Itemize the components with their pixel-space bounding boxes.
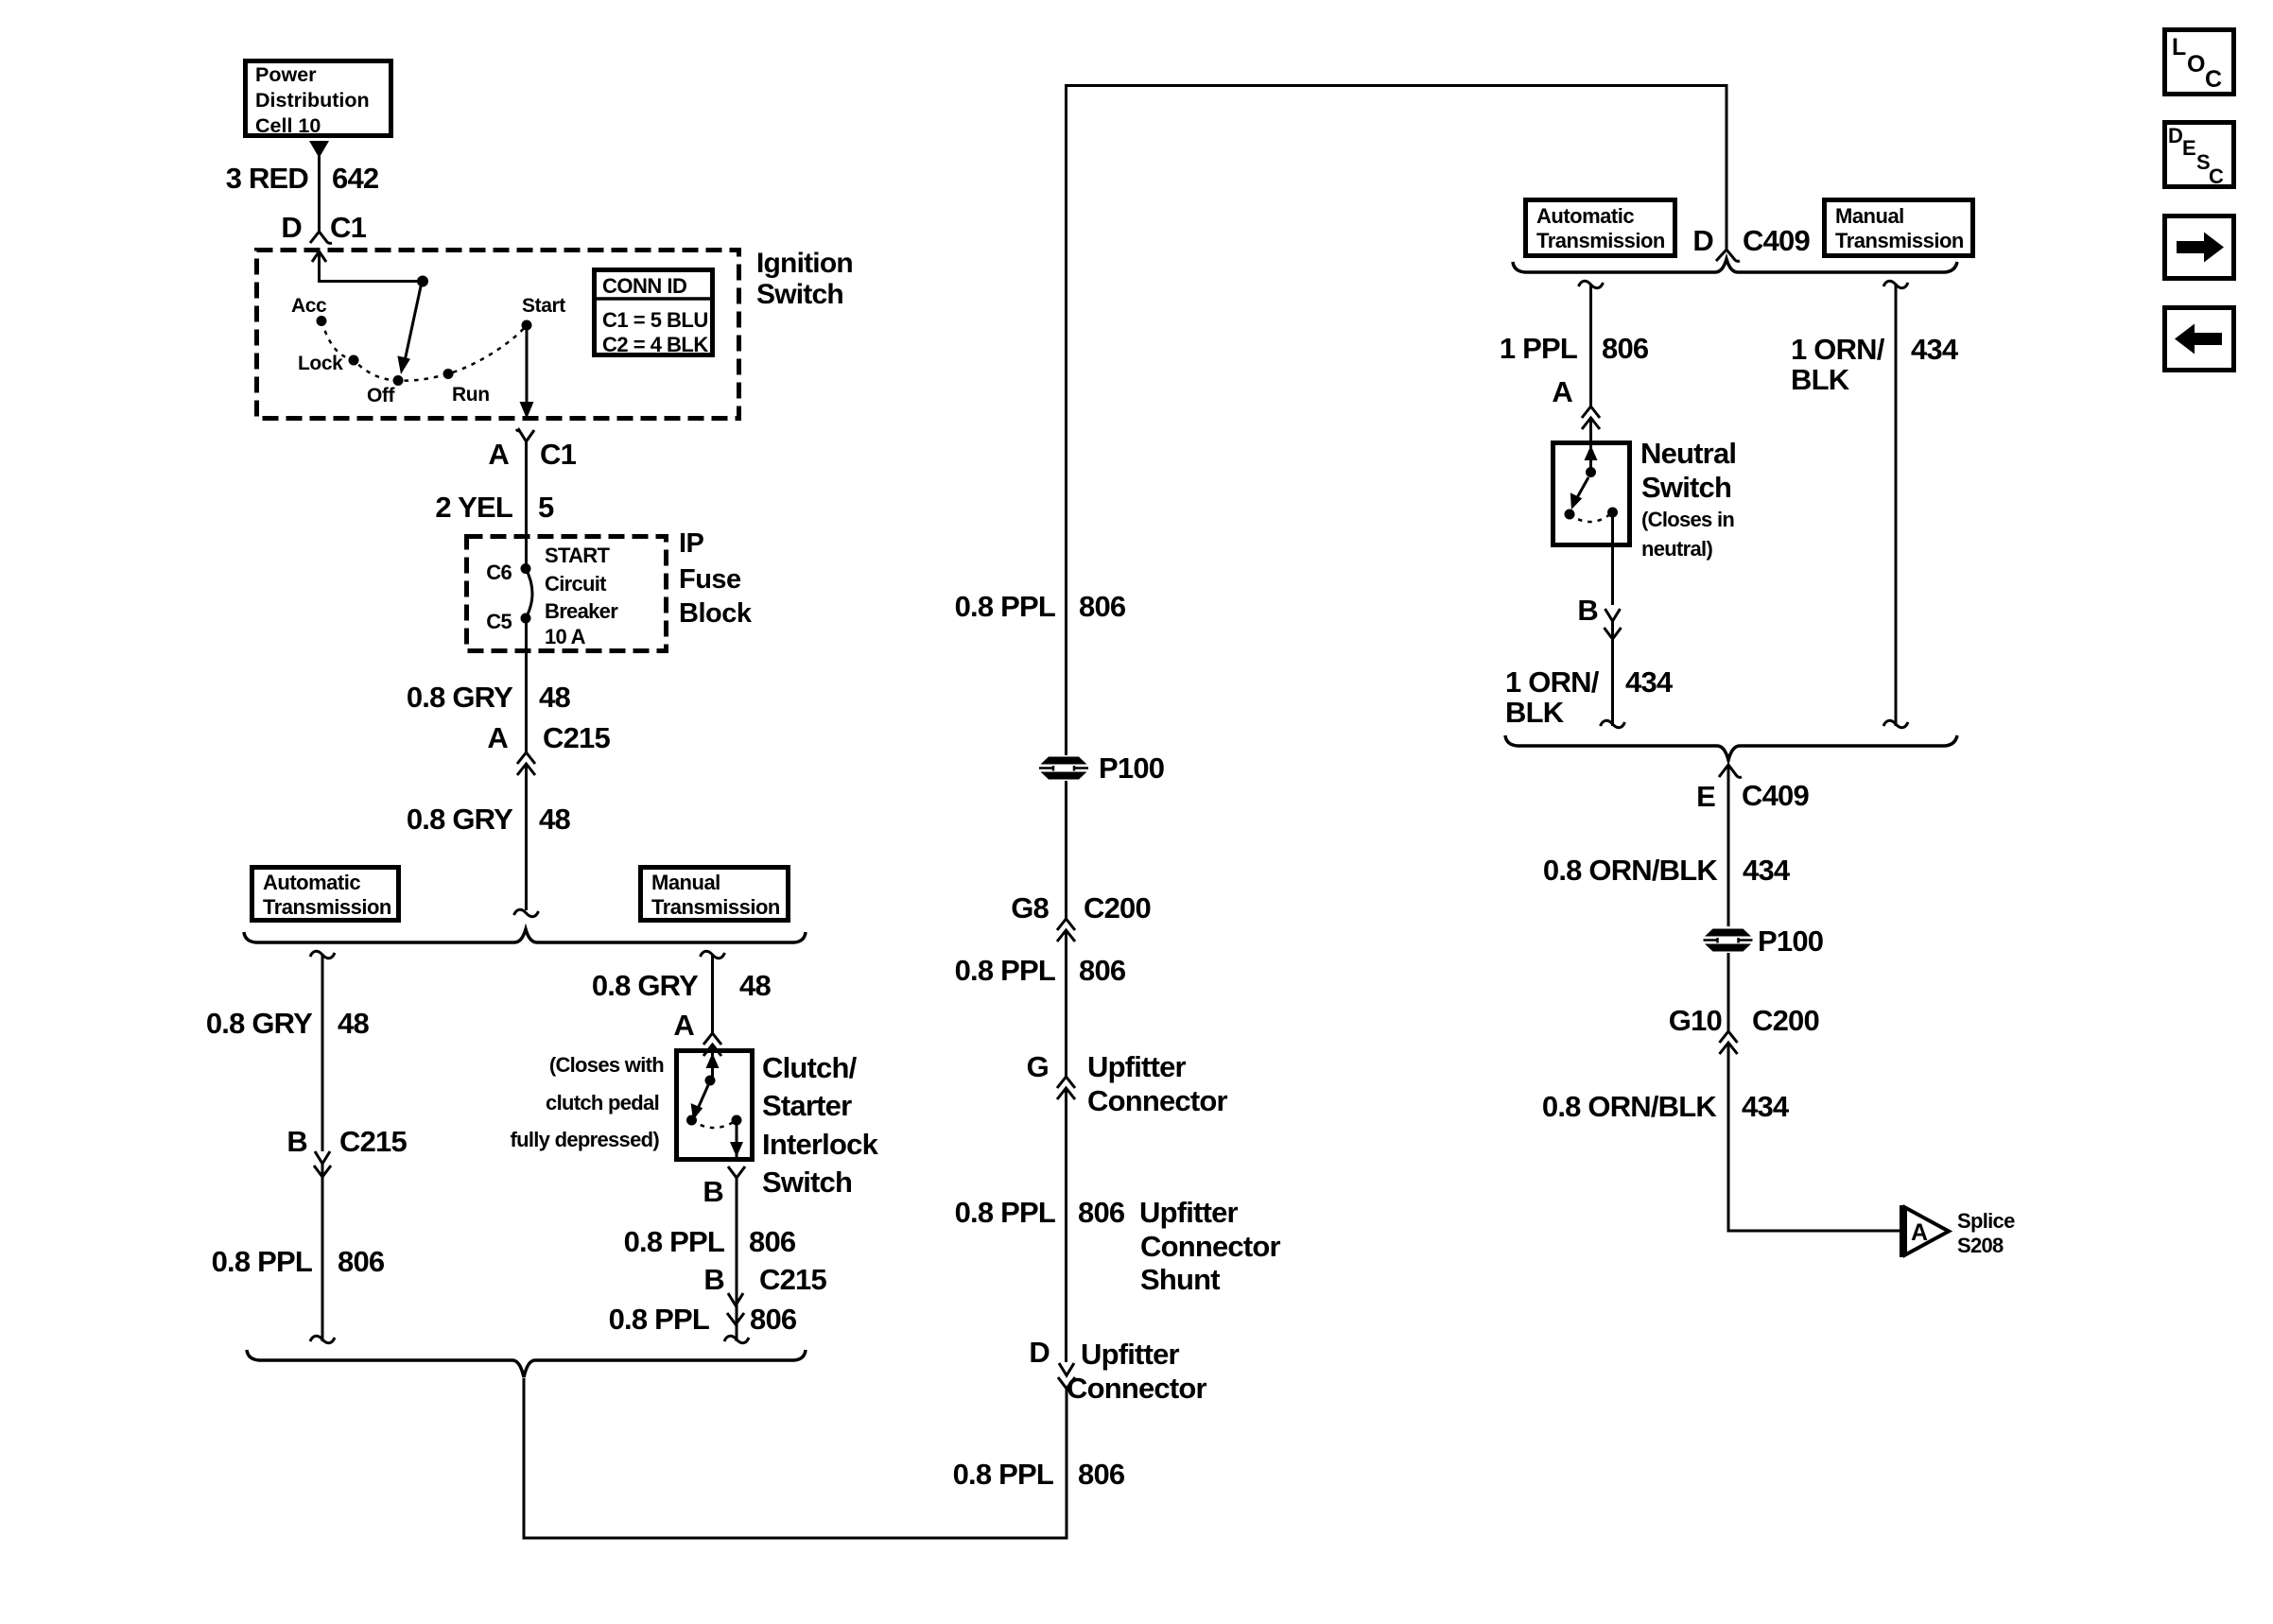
svg-text:Circuit: Circuit bbox=[545, 572, 607, 596]
wire 434 (1 ORN/BLK) manual bypass bbox=[1895, 284, 1898, 726]
svg-text:D: D bbox=[1692, 224, 1713, 257]
circuit breaker terminal C5 bbox=[521, 613, 531, 624]
svg-text:C: C bbox=[2205, 66, 2222, 93]
node Acc bbox=[317, 316, 327, 326]
svg-text:A: A bbox=[488, 438, 509, 471]
upfitter connector pin D (arrow down and fork) bbox=[1058, 1363, 1075, 1389]
svg-text:0.8 ORN/BLK: 0.8 ORN/BLK bbox=[1542, 1090, 1718, 1123]
connector C215 pin B (arrow down and fork) bbox=[314, 1151, 331, 1177]
svg-text:CONN ID: CONN ID bbox=[602, 274, 686, 298]
svg-text:Upfitter: Upfitter bbox=[1139, 1196, 1239, 1229]
node Off bbox=[393, 375, 404, 386]
neutral switch box bbox=[1553, 443, 1630, 545]
manual branch wire start curl bbox=[701, 951, 725, 958]
svg-text:S208: S208 bbox=[1957, 1234, 2004, 1257]
connector C200 pin G8 (fork and arrow up) bbox=[1057, 919, 1075, 942]
label A C215 bbox=[487, 721, 610, 754]
label 3 RED 642 bbox=[226, 162, 379, 195]
svg-text:Transmission: Transmission bbox=[263, 895, 391, 919]
connector C1 pin D (fork and arrow) bbox=[310, 232, 332, 262]
svg-text:10 A: 10 A bbox=[545, 625, 586, 648]
circuit breaker terminal C6 bbox=[521, 563, 531, 574]
svg-text:0.8 PPL: 0.8 PPL bbox=[953, 1458, 1053, 1491]
svg-text:Splice: Splice bbox=[1957, 1209, 2015, 1233]
svg-text:B: B bbox=[1577, 594, 1598, 627]
svg-text:O: O bbox=[2187, 51, 2205, 78]
manual bypass wire end curl bbox=[1883, 720, 1908, 727]
upfitter connector pin G (fork and arrow up) bbox=[1057, 1077, 1075, 1099]
wire 642 (3 RED) bbox=[318, 156, 321, 232]
arrow left legend box bbox=[2165, 308, 2234, 371]
svg-text:5: 5 bbox=[538, 491, 554, 524]
svg-text:Fuse: Fuse bbox=[679, 564, 741, 595]
svg-text:L: L bbox=[2172, 34, 2186, 60]
svg-text:0.8 GRY: 0.8 GRY bbox=[592, 969, 699, 1002]
manual transmission box (right) bbox=[1825, 200, 1973, 256]
neutral switch internals bbox=[1565, 418, 1619, 605]
svg-text:fully depressed): fully depressed) bbox=[510, 1128, 659, 1151]
neutral branch wire end curl bbox=[1601, 720, 1625, 727]
label Neutral Switch (Closes in neutral) bbox=[1640, 437, 1736, 561]
wire 434 (0.8 ORN/BLK) bbox=[1727, 770, 1730, 926]
svg-text:434: 434 bbox=[1911, 333, 1959, 366]
svg-text:0.8 PPL: 0.8 PPL bbox=[955, 954, 1055, 987]
svg-text:C215: C215 bbox=[543, 721, 610, 754]
label 1 PPL 806 bbox=[1500, 332, 1649, 365]
svg-text:Neutral: Neutral bbox=[1640, 437, 1736, 470]
svg-text:C: C bbox=[2209, 164, 2224, 188]
wire 48 to transmission split bbox=[525, 764, 528, 910]
svg-text:Lock: Lock bbox=[298, 353, 343, 374]
automatic branch wire end curl bbox=[310, 1336, 335, 1342]
svg-text:Upfitter: Upfitter bbox=[1081, 1338, 1180, 1371]
svg-text:0.8 GRY: 0.8 GRY bbox=[407, 681, 513, 714]
svg-text:806: 806 bbox=[338, 1245, 385, 1278]
clutch switch internals bbox=[686, 1045, 743, 1162]
label B C215 (automatic) bbox=[286, 1125, 407, 1158]
top feed wire to C409 bbox=[1067, 86, 1727, 758]
svg-text:48: 48 bbox=[739, 969, 771, 1002]
svg-text:C409: C409 bbox=[1742, 779, 1809, 812]
svg-text:C215: C215 bbox=[759, 1263, 826, 1296]
svg-text:Start: Start bbox=[522, 295, 565, 317]
label E C409 bbox=[1696, 779, 1809, 813]
svg-text:(Closes in: (Closes in bbox=[1641, 508, 1734, 531]
svg-text:B: B bbox=[703, 1263, 724, 1296]
label 0.8 PPL 806 (bottom run) bbox=[953, 1458, 1125, 1491]
grommet P100 (middle) bbox=[1039, 752, 1164, 785]
brace under C409 bbox=[1513, 259, 1957, 272]
svg-text:0.8 PPL: 0.8 PPL bbox=[955, 1196, 1055, 1229]
svg-text:Automatic: Automatic bbox=[263, 871, 360, 894]
wire from C1-D into switch bbox=[320, 251, 424, 282]
wire end curl at split bbox=[514, 909, 539, 916]
wire 48 (0.8 GRY) below breaker bbox=[525, 618, 528, 752]
label 0.8 GRY 48 (automatic) bbox=[206, 1007, 370, 1040]
neutral branch wire start curl bbox=[1579, 281, 1604, 287]
svg-text:0.8 ORN/BLK: 0.8 ORN/BLK bbox=[1543, 854, 1719, 887]
svg-text:BLK: BLK bbox=[1791, 363, 1850, 396]
svg-text:Manual: Manual bbox=[651, 871, 720, 894]
svg-text:C1 = 5 BLU: C1 = 5 BLU bbox=[602, 308, 708, 332]
svg-text:D: D bbox=[1029, 1336, 1050, 1369]
label 0.8 GRY 48 (manual) bbox=[592, 969, 772, 1002]
svg-text:Automatic: Automatic bbox=[1536, 204, 1634, 228]
svg-text:Connector: Connector bbox=[1140, 1230, 1281, 1263]
svg-text:Power: Power bbox=[255, 63, 317, 86]
svg-text:48: 48 bbox=[539, 681, 570, 714]
svg-text:Cell 10: Cell 10 bbox=[255, 114, 321, 137]
grommet P100 (right) bbox=[1704, 924, 1824, 958]
svg-text:48: 48 bbox=[338, 1007, 369, 1040]
svg-text:E: E bbox=[2182, 136, 2195, 160]
svg-text:Manual: Manual bbox=[1835, 204, 1904, 228]
label Ignition Switch bbox=[756, 248, 853, 310]
label 2 YEL 5 bbox=[435, 491, 554, 524]
svg-text:B: B bbox=[703, 1175, 723, 1208]
svg-text:806: 806 bbox=[1602, 332, 1649, 365]
connector C409 pin E fork bbox=[1719, 765, 1742, 778]
label IP Fuse Block bbox=[679, 528, 753, 629]
svg-text:2 YEL: 2 YEL bbox=[435, 491, 512, 524]
label A C1 bbox=[488, 438, 576, 471]
clutch/starter interlock switch box bbox=[677, 1051, 753, 1160]
svg-text:C215: C215 bbox=[339, 1125, 407, 1158]
svg-text:0.8 PPL: 0.8 PPL bbox=[955, 590, 1055, 623]
svg-text:642: 642 bbox=[332, 162, 378, 195]
svg-text:Starter: Starter bbox=[762, 1089, 852, 1122]
manual branch wire end curl bbox=[724, 1336, 749, 1342]
svg-text:434: 434 bbox=[1743, 854, 1791, 887]
svg-text:A: A bbox=[1552, 375, 1572, 408]
svg-text:806: 806 bbox=[1078, 1196, 1125, 1229]
wire 806 between P100 and C200 bbox=[1065, 781, 1067, 919]
label G Upfitter Connector bbox=[1027, 1050, 1228, 1117]
start contact wire with arrow bbox=[520, 325, 534, 419]
label 1 ORN/ BLK 434 bbox=[1505, 665, 1674, 729]
automatic branch wire start curl bbox=[310, 951, 335, 958]
svg-text:Upfitter: Upfitter bbox=[1087, 1050, 1187, 1083]
LOC legend box bbox=[2165, 30, 2234, 95]
automatic transmission box (left) bbox=[252, 868, 399, 921]
label 0.8 PPL 806 (manual upper) bbox=[624, 1225, 796, 1258]
svg-text:0.8 GRY: 0.8 GRY bbox=[407, 803, 513, 836]
ignition switch arm arrow bbox=[397, 286, 421, 374]
svg-text:Ignition: Ignition bbox=[756, 248, 853, 279]
svg-text:48: 48 bbox=[539, 803, 570, 836]
node Lock bbox=[349, 355, 359, 366]
svg-text:C5: C5 bbox=[486, 610, 512, 633]
svg-text:C6: C6 bbox=[486, 561, 512, 584]
svg-text:C2 = 4 BLK: C2 = 4 BLK bbox=[602, 333, 708, 356]
svg-text:C200: C200 bbox=[1084, 891, 1151, 924]
brace under transmission boxes bbox=[244, 929, 806, 942]
label 0.8 ORN/BLK 434 bbox=[1543, 854, 1791, 887]
label 1 ORN/ BLK 434 (bypass) bbox=[1791, 333, 1959, 396]
power distribution box bbox=[246, 61, 391, 138]
connector neutral switch pin B (arrow down and fork) bbox=[1605, 609, 1622, 639]
ignition switch pivot dot bbox=[417, 276, 428, 287]
circuit breaker element bbox=[526, 569, 532, 619]
svg-text:G8: G8 bbox=[1011, 891, 1049, 924]
svg-text:Clutch/: Clutch/ bbox=[762, 1051, 858, 1084]
label START Circuit Breaker 10 A bbox=[545, 544, 618, 648]
ignition rotary dashed arc bbox=[321, 321, 527, 381]
svg-text:Transmission: Transmission bbox=[651, 895, 780, 919]
svg-text:Interlock: Interlock bbox=[762, 1128, 879, 1161]
arrow into power distribution bbox=[309, 141, 329, 158]
wire from brace down and across to upfitter connector bbox=[524, 1378, 1067, 1538]
svg-text:Connector: Connector bbox=[1087, 1084, 1228, 1117]
wire 434 between P100 and C200 bbox=[1727, 953, 1730, 1031]
connector C1 pin A fork bbox=[516, 429, 534, 441]
wire 48 automatic branch bbox=[321, 954, 324, 1151]
wire 48 manual branch bbox=[711, 954, 714, 1033]
svg-text:START: START bbox=[545, 544, 610, 567]
ignition switch dashed box bbox=[257, 251, 739, 419]
svg-text:0.8 PPL: 0.8 PPL bbox=[624, 1225, 724, 1258]
svg-text:Switch: Switch bbox=[1641, 471, 1731, 504]
wire 806 to upfitter connector G bbox=[1065, 930, 1067, 1077]
connector C215 pin B manual (arrow down and fork) bbox=[727, 1293, 744, 1324]
svg-text:Transmission: Transmission bbox=[1835, 229, 1964, 252]
svg-text:C1: C1 bbox=[330, 211, 367, 244]
label 0.8 PPL 806 (automatic) bbox=[212, 1245, 385, 1278]
label 0.8 GRY 48 bbox=[407, 681, 571, 714]
label 0.8 PPL 806 (middle top) bbox=[955, 590, 1126, 623]
automatic transmission box (right) bbox=[1526, 200, 1675, 256]
svg-text:clutch pedal: clutch pedal bbox=[546, 1091, 659, 1114]
wire 806 upfitter connector shunt bbox=[1065, 1088, 1067, 1362]
svg-text:G: G bbox=[1027, 1050, 1049, 1083]
wire 806 (1 PPL) bbox=[1589, 284, 1592, 406]
wire 5 (2 YEL) bbox=[525, 441, 528, 568]
splice S208 symbol bbox=[1900, 1205, 1949, 1257]
CONN ID table bbox=[592, 270, 715, 357]
svg-text:1 ORN/: 1 ORN/ bbox=[1791, 333, 1885, 366]
svg-text:806: 806 bbox=[1078, 1458, 1125, 1491]
svg-text:Block: Block bbox=[679, 598, 753, 629]
connector clutch switch pin A (fork and arrow up) bbox=[703, 1033, 721, 1056]
svg-text:Breaker: Breaker bbox=[545, 599, 618, 623]
svg-text:Transmission: Transmission bbox=[1536, 229, 1665, 252]
svg-text:0.8 PPL: 0.8 PPL bbox=[212, 1245, 312, 1278]
svg-text:806: 806 bbox=[749, 1225, 796, 1258]
connector neutral switch pin A (fork and arrow up) bbox=[1582, 406, 1600, 429]
wire 806 automatic branch bbox=[321, 1164, 324, 1341]
label (Closes with clutch pedal fully depressed) bbox=[510, 1053, 664, 1151]
svg-text:0.8 PPL: 0.8 PPL bbox=[609, 1303, 709, 1336]
svg-text:D: D bbox=[281, 211, 302, 244]
svg-text:D: D bbox=[2168, 124, 2182, 147]
svg-text:Switch: Switch bbox=[756, 279, 843, 310]
label D Upfitter Connector bbox=[1029, 1336, 1206, 1405]
label 0.8 PPL 806 Upfitter Connector Shunt bbox=[955, 1196, 1281, 1296]
svg-text:1 ORN/: 1 ORN/ bbox=[1505, 665, 1600, 699]
wire 434 (1 ORN/BLK) neutral branch bbox=[1611, 621, 1614, 726]
svg-text:3 RED: 3 RED bbox=[226, 162, 309, 195]
DESC legend box bbox=[2165, 123, 2234, 189]
svg-text:IP: IP bbox=[679, 528, 704, 559]
svg-text:(Closes with: (Closes with bbox=[549, 1053, 664, 1077]
svg-text:806: 806 bbox=[1079, 590, 1126, 623]
svg-text:A: A bbox=[487, 721, 508, 754]
svg-text:1 PPL: 1 PPL bbox=[1500, 332, 1577, 365]
svg-text:Off: Off bbox=[367, 385, 396, 406]
svg-text:A: A bbox=[1911, 1219, 1928, 1246]
label 0.8 GRY 48 (second) bbox=[407, 803, 571, 836]
svg-text:806: 806 bbox=[1079, 954, 1126, 987]
svg-text:Distribution: Distribution bbox=[255, 89, 370, 112]
label G10 C200 bbox=[1669, 1004, 1819, 1037]
connector C215 pin A (fork and arrow up) bbox=[517, 752, 535, 775]
svg-text:0.8 GRY: 0.8 GRY bbox=[206, 1007, 313, 1040]
svg-text:Run: Run bbox=[452, 384, 490, 406]
svg-text:C200: C200 bbox=[1752, 1004, 1819, 1037]
svg-text:Connector: Connector bbox=[1067, 1372, 1207, 1405]
gathering brace above splice path bbox=[247, 1350, 806, 1377]
label B C215 (manual) bbox=[703, 1263, 826, 1296]
IP fuse block dashed box bbox=[467, 537, 667, 651]
node Start bbox=[522, 320, 532, 331]
manual bypass wire start curl bbox=[1883, 281, 1908, 287]
label D C409 bbox=[1692, 224, 1810, 257]
gathering brace above C409 pin E bbox=[1505, 735, 1957, 760]
svg-text:C409: C409 bbox=[1743, 224, 1810, 257]
svg-text:Shunt: Shunt bbox=[1140, 1263, 1220, 1296]
svg-text:A: A bbox=[673, 1009, 694, 1042]
svg-text:P100: P100 bbox=[1758, 924, 1823, 958]
svg-text:neutral): neutral) bbox=[1641, 537, 1712, 561]
svg-text:434: 434 bbox=[1742, 1090, 1790, 1123]
label G8 C200 bbox=[1011, 891, 1151, 924]
label 0.8 PPL 806 (manual lower) bbox=[609, 1303, 797, 1336]
connector C200 pin G10 (fork and arrow up) bbox=[1720, 1031, 1738, 1054]
svg-text:Acc: Acc bbox=[291, 295, 327, 317]
svg-text:806: 806 bbox=[750, 1303, 797, 1336]
svg-text:G10: G10 bbox=[1669, 1004, 1722, 1037]
label Clutch/ Starter Interlock Switch bbox=[762, 1051, 879, 1199]
label D C1 bbox=[281, 211, 366, 244]
connector C409 pin D fork bbox=[1716, 250, 1740, 261]
svg-text:434: 434 bbox=[1625, 665, 1674, 699]
label 0.8 ORN/BLK 434 (lower) bbox=[1542, 1090, 1790, 1123]
svg-text:BLK: BLK bbox=[1505, 696, 1565, 729]
wire 806 manual branch bbox=[736, 1178, 738, 1341]
label Splice S208 bbox=[1957, 1209, 2015, 1257]
svg-text:B: B bbox=[286, 1125, 307, 1158]
label 0.8 PPL 806 (middle) bbox=[955, 954, 1126, 987]
arrow right legend box bbox=[2165, 216, 2234, 279]
svg-text:C1: C1 bbox=[540, 438, 577, 471]
wire 434 to splice S208 bbox=[1728, 1043, 1900, 1231]
node Run bbox=[443, 369, 454, 379]
svg-text:Switch: Switch bbox=[762, 1166, 852, 1199]
svg-text:P100: P100 bbox=[1099, 752, 1164, 785]
connector below clutch switch (fork down) bbox=[728, 1166, 745, 1178]
manual transmission box (left) bbox=[641, 868, 789, 921]
svg-text:E: E bbox=[1696, 780, 1715, 813]
